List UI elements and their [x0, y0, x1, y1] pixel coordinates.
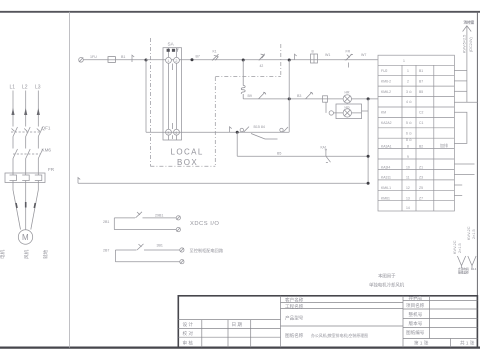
- breaker QF1 linkage: [11, 131, 41, 133]
- svg-text:产品型号: 产品型号: [285, 315, 304, 322]
- separator line between motor sheet and control sheet: [68, 12, 70, 348]
- svg-text:KA3A1: KA3A1: [381, 145, 392, 149]
- svg-text:Z3: Z3: [419, 176, 423, 180]
- wire J7 drop: [236, 132, 238, 156]
- rung B contact: [137, 244, 144, 250]
- svg-text:FR: FR: [48, 167, 55, 172]
- contactor KM6 pole 3: [38, 149, 43, 159]
- svg-text:项目名称: 项目名称: [406, 302, 425, 309]
- wire to lamp HG: [334, 112, 362, 114]
- border frame bottom: [0, 347, 480, 349]
- svg-text:接线盒柜: 接线盒柜: [457, 271, 469, 275]
- svg-text:Z5: Z5: [419, 186, 423, 190]
- thermal relay FR element 3: [35, 173, 42, 183]
- terminal circle left on y132: [240, 128, 243, 131]
- svg-text:SA: SA: [168, 42, 175, 47]
- svg-text:XDCS I/O: XDCS I/O: [190, 221, 219, 227]
- contact on y132: [244, 127, 250, 133]
- local box dashed riser: [280, 44, 282, 77]
- rung A terminal top: [176, 216, 180, 220]
- svg-text:10: 10: [406, 165, 410, 169]
- svg-text:B3: B3: [297, 94, 301, 98]
- svg-text:FU2: FU2: [381, 69, 388, 73]
- svg-text:加排: 加排: [440, 142, 448, 148]
- hanging contact KA on y156: [325, 150, 331, 163]
- wire right bus vertical: [367, 99, 369, 183]
- node J5 junction dot: [288, 97, 291, 100]
- rung A bottom wire: [114, 229, 176, 231]
- wire main rung 1: [146, 59, 378, 61]
- rung A bracket: [113, 218, 115, 230]
- svg-text:B15 84: B15 84: [254, 125, 265, 129]
- wire drop from KM6 coil: [325, 102, 327, 113]
- node J7 junction dot: [236, 131, 239, 134]
- arrow on L3: [37, 108, 40, 115]
- svg-text:8 ⊙: 8 ⊙: [406, 138, 412, 142]
- svg-text:L3: L3: [35, 85, 41, 91]
- svg-text:L1: L1: [10, 85, 16, 91]
- title block divider values col: [428, 296, 430, 339]
- svg-text:HR: HR: [345, 91, 350, 95]
- node J3 junction dot: [242, 59, 245, 62]
- rung B terminal bottom: [180, 260, 184, 264]
- wire rung2 left: [243, 98, 378, 100]
- terminal SA-1: [166, 57, 172, 63]
- fuse FU1 body: [108, 57, 115, 63]
- wire rung y156: [237, 155, 368, 157]
- node J6 junction dot: [367, 97, 370, 100]
- wire HG box to bus: [362, 110, 369, 112]
- wire FR to motor mid: [25, 183, 27, 230]
- node J4 junction dot: [288, 59, 291, 62]
- wire KM6 to FR x3: [13, 159, 38, 174]
- wire marker tick B2: [295, 54, 297, 60]
- title block left rows: [178, 320, 280, 338]
- node J9 junction dot: [367, 182, 370, 185]
- border frame right: [476, 12, 478, 348]
- border frame top: [0, 11, 480, 13]
- svg-text:2B1: 2B1: [103, 220, 109, 224]
- node J1 junction dot: [145, 59, 148, 62]
- local box dashed right edge: [214, 77, 216, 166]
- svg-text:M: M: [22, 233, 29, 242]
- stub row4 exit to border: [454, 101, 477, 103]
- wire L1 drop: [12, 91, 14, 127]
- svg-text:就地: 就地: [42, 249, 49, 259]
- wire to B1 marker: [116, 59, 147, 61]
- svg-text:2: 2: [407, 79, 409, 83]
- svg-text:KM6-1: KM6-1: [381, 186, 391, 190]
- rung A top wire: [114, 217, 176, 219]
- stub row12: [454, 184, 462, 186]
- wire SA bottom rung y132: [146, 131, 289, 133]
- selector switch SA outer box: [163, 48, 182, 140]
- wire QF1 to KM6 x3: [13, 137, 38, 149]
- svg-text:客户名称: 客户名称: [285, 297, 304, 304]
- rung B bottom wire: [115, 261, 179, 263]
- title block divider center: [280, 296, 282, 348]
- svg-text:QF1: QF1: [42, 126, 51, 131]
- title block divider labels col: [402, 296, 404, 348]
- svg-text:共 1 张: 共 1 张: [460, 339, 475, 346]
- svg-text:29B1: 29B1: [155, 213, 163, 217]
- svg-text:本图用于: 本图用于: [378, 273, 396, 280]
- rung A terminal bottom: [176, 228, 180, 232]
- svg-text:KA1: KA1: [321, 146, 327, 150]
- rung B terminal top: [180, 248, 184, 252]
- svg-text:KM6-2: KM6-2: [381, 90, 391, 94]
- svg-text:42: 42: [260, 64, 264, 68]
- svg-text:DL1: DL1: [471, 267, 477, 271]
- node J2 junction dot after SA: [191, 58, 194, 61]
- contact FR NC on rung1: [345, 54, 353, 60]
- lamp HR circle: [343, 95, 351, 103]
- svg-text:图纸名称: 图纸名称: [285, 332, 304, 339]
- loop row5-row8: [454, 112, 467, 143]
- svg-text:W1: W1: [325, 53, 330, 57]
- svg-text:FR: FR: [346, 49, 351, 53]
- coil wiggle on J3 drop: [241, 60, 245, 99]
- wire FR to motor right: [31, 183, 39, 230]
- lamp HG enclosure box: [336, 104, 362, 119]
- svg-text:14: 14: [406, 206, 410, 210]
- rung B bracket: [114, 250, 116, 262]
- terminal SA-2: [174, 57, 180, 63]
- title block sheet divider: [450, 339, 452, 348]
- contact KM6 aux rung2 right: [306, 92, 313, 99]
- title block outer frame: [178, 296, 477, 348]
- svg-text:C2: C2: [419, 111, 423, 115]
- svg-text:B2: B2: [419, 145, 423, 149]
- selector SA column lines: [169, 48, 177, 140]
- svg-text:KA2A2: KA2A2: [381, 121, 392, 125]
- svg-text:B1: B1: [419, 69, 423, 73]
- terminal X1 circle: [79, 58, 84, 63]
- terminal table row lines: [378, 65, 454, 200]
- wire L3 drop: [37, 91, 39, 127]
- coil KM6 square: [323, 96, 328, 102]
- wire marker tick B1: [132, 55, 134, 62]
- svg-text:去顶电机: 去顶电机: [458, 267, 469, 271]
- contactor KM6 linkage: [13, 153, 41, 155]
- svg-text:B5: B5: [277, 151, 281, 155]
- svg-text:11: 11: [406, 176, 410, 180]
- wire L1 control: [83, 59, 107, 61]
- fuse FU2 body: [311, 54, 318, 63]
- motor M1 circle: [18, 230, 32, 244]
- arrow mark wire V: [25, 202, 27, 208]
- stub row13: [454, 195, 462, 197]
- svg-text:8: 8: [407, 145, 409, 149]
- title block center rows: [281, 302, 404, 326]
- terminal SA-4: [174, 129, 180, 135]
- svg-text:整机号: 整机号: [409, 311, 423, 318]
- svg-text:至控制柜配电回路: 至控制柜配电回路: [190, 247, 224, 254]
- svg-text:BOX: BOX: [177, 158, 198, 167]
- svg-text:KA3I4: KA3I4: [381, 165, 390, 169]
- rung A contact: [136, 212, 143, 218]
- down arrow V1: [457, 256, 465, 268]
- svg-text:B7: B7: [419, 79, 423, 83]
- svg-text:5 ⊙: 5 ⊙: [406, 121, 412, 125]
- svg-text:LOCAL: LOCAL: [171, 148, 204, 157]
- svg-text:存档号: 存档号: [409, 295, 423, 302]
- contact SA aux on rung1: [259, 54, 265, 61]
- svg-text:KM6: KM6: [42, 148, 52, 153]
- contact KA1 (remote enable): [212, 54, 219, 60]
- aux blade hanging: [251, 134, 278, 140]
- svg-text:W7: W7: [361, 53, 366, 57]
- arrow mark wire W: [34, 203, 35, 208]
- svg-text:1: 1: [407, 69, 409, 73]
- svg-text:KVV-2C: KVV-2C: [467, 226, 471, 240]
- title block right rows: [403, 300, 477, 338]
- wire FR to motor left: [13, 183, 21, 230]
- svg-text:12: 12: [406, 186, 410, 190]
- svg-text:1FU: 1FU: [90, 55, 97, 59]
- wire neutral line N: [78, 182, 368, 184]
- svg-text:设 计: 设 计: [183, 321, 194, 328]
- arrow on L2: [24, 108, 27, 115]
- wire J4-J5 vertical link: [288, 60, 290, 132]
- svg-text:13: 13: [406, 197, 410, 201]
- node J8 junction dot: [367, 155, 370, 158]
- svg-text:2×1.5: 2×1.5: [458, 243, 462, 253]
- svg-text:K1: K1: [213, 50, 217, 54]
- breaker QF1 pole 1: [12, 127, 18, 137]
- svg-text:B1: B1: [121, 55, 125, 59]
- svg-text:KM61: KM61: [381, 197, 390, 201]
- thermal relay FR element 1: [10, 173, 17, 183]
- contactor KM6 pole 1: [13, 149, 18, 159]
- thermal relay FR box: [5, 173, 45, 183]
- arrow mark wire U: [16, 203, 17, 208]
- stub row1: [454, 70, 467, 72]
- contactor KM6 pole 2: [26, 149, 31, 159]
- svg-text:9: 9: [407, 155, 409, 159]
- lamp HG circle: [343, 109, 351, 117]
- svg-text:6 ⊙: 6 ⊙: [406, 131, 412, 135]
- rung B top wire: [115, 249, 179, 251]
- svg-text:(DC24V): (DC24V): [469, 36, 473, 52]
- breaker QF1 pole 3: [37, 127, 43, 137]
- wire L2 drop: [25, 91, 27, 127]
- svg-text:1: 1: [403, 59, 405, 63]
- svg-text:KM: KM: [381, 111, 386, 115]
- svg-text:版本号: 版本号: [409, 320, 423, 327]
- svg-text:HG: HG: [345, 105, 350, 109]
- terminal table column lines: [402, 65, 434, 211]
- terminal circle right on y132: [280, 128, 283, 131]
- stub row2: [454, 80, 467, 82]
- svg-text:校 对: 校 对: [183, 330, 194, 337]
- breaker QF1 pole 2: [24, 127, 30, 137]
- svg-text:4 ⊙: 4 ⊙: [406, 100, 412, 104]
- svg-text:第 1 张: 第 1 张: [414, 339, 429, 346]
- svg-text:Z7: Z7: [419, 197, 423, 201]
- diode D1 small circle: [329, 111, 333, 115]
- contact right on y132: [283, 127, 288, 132]
- svg-text:Z1: Z1: [419, 165, 423, 169]
- svg-text:2B7: 2B7: [103, 248, 109, 252]
- svg-text:消控室: 消控室: [464, 19, 475, 24]
- fuse FU1 through-line: [108, 59, 116, 61]
- cable arrow head up: [463, 26, 472, 32]
- contact KM6 aux rung2 left: [259, 92, 266, 99]
- svg-text:3 ⊙: 3 ⊙: [406, 90, 412, 94]
- svg-text:KM6-2: KM6-2: [381, 79, 391, 83]
- wire J1 down to local loop: [145, 60, 147, 132]
- local box dashed bottom edge: [150, 165, 215, 167]
- svg-text:单独电机冷却风机: 单独电机冷却风机: [369, 282, 405, 289]
- svg-text:KVV-2C: KVV-2C: [453, 240, 457, 254]
- svg-text:L2: L2: [22, 85, 28, 91]
- svg-text:KVV-5×2.5: KVV-5×2.5: [463, 35, 467, 53]
- terminal SA-3: [166, 129, 172, 135]
- arrow on L1: [11, 108, 14, 115]
- local box dashed left edge: [149, 38, 151, 166]
- local box dashed top-right extension: [215, 76, 280, 78]
- svg-text:风机: 风机: [23, 249, 30, 259]
- svg-text:B9: B9: [248, 94, 252, 98]
- svg-text:B7: B7: [196, 55, 200, 59]
- thermal relay FR element 2: [22, 173, 29, 183]
- title block left columns: [202, 320, 251, 348]
- svg-text:KA311: KA311: [381, 176, 391, 180]
- svg-text:图纸编号: 图纸编号: [406, 329, 425, 336]
- stub row11: [454, 174, 474, 176]
- cable bus vertical to DCS: [466, 26, 468, 102]
- wire marker tick on y132: [230, 127, 232, 132]
- terminal table outline: [378, 55, 454, 211]
- stub row10: [454, 163, 474, 165]
- svg-text:C1: C1: [419, 121, 423, 125]
- stub row3: [454, 90, 467, 92]
- terminal X1 slash: [79, 57, 83, 62]
- svg-text:B5: B5: [419, 90, 423, 94]
- selector SA contact marks: [167, 49, 170, 52]
- wire marker tick on N: [78, 178, 80, 184]
- down arrow V2: [468, 256, 476, 268]
- svg-text:3B1: 3B1: [157, 243, 163, 247]
- svg-text:工程名称: 工程名称: [285, 303, 304, 310]
- svg-text:2×1.5: 2×1.5: [472, 229, 476, 239]
- svg-text:审 核: 审 核: [183, 339, 194, 346]
- svg-text:办公风机(教室排电机)空装原理图: 办公风机(教室排电机)空装原理图: [311, 333, 368, 338]
